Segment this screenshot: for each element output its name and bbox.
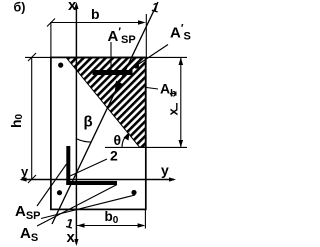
label h0 — [8, 113, 25, 128]
y axis — [21, 179, 174, 181]
rebar dot top-right — [134, 63, 139, 68]
x axis — [75, 6, 77, 244]
svg-text:2: 2 — [110, 148, 118, 164]
rebar dot bottom-right — [131, 190, 136, 195]
h0 dimension line — [31, 57, 33, 179]
svg-text:y: y — [21, 164, 29, 179]
svg-text:β: β — [84, 114, 93, 131]
b dimension line — [51, 22, 144, 24]
b0 extension — [144, 209, 146, 228]
b extension right — [145, 14, 147, 57]
top bar A'sp (thick) — [93, 70, 133, 75]
b0 dimension line — [76, 225, 144, 227]
rebar dot bottom-left — [57, 190, 62, 195]
svg-text:θ: θ — [114, 132, 122, 148]
line 1 (moment plane trace) — [52, 2, 158, 224]
x1 top extension — [146, 56, 187, 58]
label x1 (rotated) — [166, 91, 181, 115]
b extension left — [50, 22, 52, 57]
svg-text:б): б) — [14, 1, 26, 15]
h0 top extension — [25, 56, 51, 58]
arrowhead on line 1 — [115, 81, 124, 92]
svg-text:y: y — [161, 162, 169, 178]
bent bar L (thick) — [66, 146, 70, 185]
svg-text:b: b — [91, 6, 100, 22]
section rectangle — [51, 57, 146, 209]
svg-text:x: x — [68, 0, 77, 14]
hatched compression zone Ab — [67, 58, 146, 147]
rebar dot top-left — [58, 63, 63, 68]
beta arc — [76, 139, 91, 142]
theta arc — [122, 134, 129, 148]
svg-text:x: x — [67, 229, 76, 246]
x1 dimension line — [180, 58, 182, 148]
x1 bottom extension — [105, 146, 187, 148]
